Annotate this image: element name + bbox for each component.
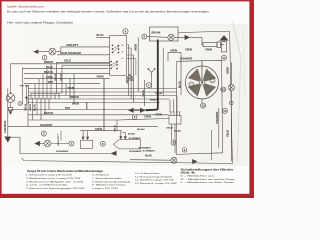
legend column 2 (92, 175, 132, 190)
wire chain c (190, 37, 203, 44)
label BLAU bottom (145, 155, 152, 158)
svg-text:BLAU: BLAU (174, 130, 182, 133)
svg-text:BRAUN: BRAUN (70, 96, 79, 99)
wire relay top bus (80, 130, 122, 132)
svg-text:SCHWARZ: SCHWARZ (139, 146, 152, 149)
label VIOLETT (66, 44, 79, 47)
frame bottom line (22, 158, 233, 163)
wire flywheel bottom stub (201, 99, 203, 103)
wire mid bus 2 (28, 91, 177, 93)
wire GELB v3 (130, 48, 132, 99)
svg-text:GELB: GELB (228, 130, 230, 137)
headlamp connector box (8, 108, 13, 111)
label BLAU switch5 (128, 133, 136, 136)
terminal block X8 (169, 111, 181, 124)
label GELB v3 (130, 74, 132, 81)
label SCHWARZ left (4, 120, 7, 133)
node label 9 top (142, 34, 147, 39)
headlamp H1 (Scheinwerfer) (6, 94, 15, 103)
wire green mid2 (118, 119, 169, 121)
terminal letter L (122, 58, 124, 60)
wire BLAU engine (180, 61, 182, 95)
blinker lamp 2 bottom (44, 140, 51, 147)
svg-text:GELB: GELB (60, 73, 62, 81)
svg-text:GRÜN: GRÜN (95, 128, 102, 131)
wire grun v7 (144, 80, 146, 106)
front blinker arrow (2) (33, 50, 38, 54)
svg-text:BLAU: BLAU (178, 81, 181, 88)
label GELB h (64, 60, 71, 63)
label GRUN relay (95, 128, 102, 131)
label tiny pins (20, 86, 29, 88)
wire pin v2 (32, 98, 34, 120)
label VIOLETT v (58, 132, 60, 146)
label SCHWARZ relay (56, 150, 69, 153)
label GELB right (228, 130, 230, 137)
wire WEIB v (137, 37, 139, 92)
wire extra drops (41, 74, 74, 120)
svg-text:11. Hochspannungszündspule: 11. Hochspannungszündspule (135, 176, 174, 178)
label GELB-SCHWARZ (60, 52, 82, 55)
svg-text:GELB: GELB (55, 73, 57, 81)
wire horn down (151, 76, 153, 89)
wire mid bus 8 (28, 119, 118, 121)
node label 2 top (42, 55, 47, 60)
svg-text:12. Rücklicht, Lampe 12V 5W: 12. Rücklicht, Lampe 12V 5W (135, 179, 174, 182)
label BRAUN mid3 (44, 112, 53, 115)
wire bottom bus left (20, 152, 111, 154)
svg-text:SCHWARZ: SCHWARZ (129, 137, 142, 140)
svg-text:0 – Blinklichter aus: 0 – Blinklichter aus (181, 175, 215, 178)
wire bus left group (11, 64, 110, 84)
svg-text:SCHWARZ: SCHWARZ (143, 150, 156, 153)
label WEIB v (136, 44, 138, 51)
brake switch pins (119, 131, 127, 140)
switch S4 contacts upper (112, 45, 119, 53)
svg-text:BLAU: BLAU (33, 104, 36, 111)
small connector 13 (230, 101, 234, 105)
arrow chain bottom (192, 159, 197, 164)
svg-text:1. Scheinwerfer Lampe 12V 15-1: 1. Scheinwerfer Lampe 12V 15-15W (26, 175, 72, 177)
wire inner right v (211, 130, 213, 160)
frame top line (178, 31, 230, 32)
svg-text:13. Bremslicht, Lampe 12V 10W: 13. Bremslicht, Lampe 12V 10W (135, 182, 177, 185)
node label 8 (171, 140, 176, 145)
wire headlamp up (10, 64, 11, 94)
node label 2 bottom (41, 131, 46, 136)
svg-text:SCHWARZ: SCHWARZ (216, 111, 219, 124)
tail lamp 12 (228, 84, 234, 90)
svg-text:Schaltstellungen der Blinker: Schaltstellungen der Blinker (181, 168, 234, 171)
front blinker arrow 2b (34, 141, 40, 146)
svg-text:BLAU: BLAU (138, 128, 146, 131)
label GRUN suppressor (205, 49, 212, 52)
wire plug lead (221, 44, 225, 46)
switch S4 contacts lower (110, 61, 117, 69)
label GRUN below box (97, 76, 104, 79)
svg-text:3. Elektronischer Blinkgeber 1: 3. Elektronischer Blinkgeber 12V - 2x21W (26, 180, 83, 183)
svg-text:GELB: GELB (114, 124, 116, 132)
wire pin v3 (36, 98, 38, 115)
label BLAU 5box (138, 128, 146, 131)
brake switch S5 body (114, 140, 141, 149)
label SCHWARZ bus (40, 124, 53, 127)
label SCHWARZ right (216, 111, 219, 124)
label GRUN ht2 (155, 113, 162, 116)
label GELB pin v (25, 104, 27, 111)
label BLAU engine (178, 81, 181, 88)
label ROT mid (65, 107, 71, 110)
svg-text:BRAUN: BRAUN (152, 32, 161, 35)
wire blinker2b (40, 143, 44, 145)
label GRUN engine1 (170, 50, 177, 53)
double arrow 6 (128, 108, 146, 113)
label GRUN v6 (85, 102, 88, 110)
flywheel magneto G1 (186, 61, 219, 99)
wire right chain bottom (230, 105, 232, 161)
svg-text:GRÜN: GRÜN (155, 92, 163, 95)
label GELB v1 (55, 73, 57, 81)
svg-text:10: 10 (201, 104, 205, 108)
wire mid bus 6 (8, 109, 150, 111)
label SCHWARZ pair a (139, 146, 152, 149)
wire GELB h (57, 61, 110, 63)
wire drop b (25, 85, 27, 105)
engine box (176, 60, 222, 154)
wire headlamp down (10, 102, 12, 107)
header caption line (7, 20, 74, 24)
label GRUN ht (144, 116, 151, 119)
svg-text:GELB: GELB (166, 128, 174, 130)
svg-text:WEIB: WEIB (72, 103, 79, 106)
wire ROT v (133, 55, 135, 103)
terminal letter G (122, 51, 124, 53)
svg-text:GRÜN: GRÜN (185, 49, 192, 52)
label GELB v2 (60, 73, 62, 81)
connector pin row X1 (30, 94, 60, 99)
wire BLAU into switch (96, 36, 110, 38)
HT lead vertical (157, 40, 159, 110)
label GELB v6 (114, 124, 116, 132)
svg-text:SCHWARZ: SCHWARZ (40, 124, 53, 127)
node label 12 (221, 87, 226, 92)
svg-text:10. Lichtmaschine: 10. Lichtmaschine (135, 172, 161, 175)
node label 11 (222, 55, 227, 60)
wire green mid1 (135, 114, 169, 116)
wire pin v1 (27, 98, 29, 127)
node label 4 (123, 29, 128, 34)
legend blinker states (181, 175, 235, 184)
wire SCHWARZ bus (8, 126, 158, 128)
svg-text:VIOLETT: VIOLETT (66, 44, 79, 47)
node label 9 bottom (182, 148, 187, 153)
ground main left (4, 137, 11, 143)
svg-text:L – Blinklichter an linke Seit: L – Blinklichter an linke Seite (181, 181, 234, 184)
wire bottom blau (130, 159, 171, 162)
svg-text:GRÜN: GRÜN (29, 103, 32, 111)
legend title (27, 169, 104, 173)
svg-text:BRAUN: BRAUN (44, 61, 53, 64)
svg-text:VIOLETT: VIOLETT (58, 132, 60, 146)
chain box top (150, 27, 179, 41)
ground mark drop b (25, 97, 28, 100)
wire GELB vertical 1 (56, 62, 58, 93)
legend column 3 (135, 172, 177, 185)
header description line (7, 10, 210, 14)
svg-text:GELB: GELB (25, 104, 27, 111)
wire thin beside HT (162, 48, 164, 96)
spark plug arrow (219, 35, 228, 42)
legend blinker title (181, 168, 234, 174)
svg-text:Vespa 50 mit 4-fach Wechselstr: Vespa 50 mit 4-fach Wechselstrom/Blinkli… (27, 169, 104, 173)
svg-text:12: 12 (222, 88, 226, 92)
label BLAU pin v (33, 104, 36, 111)
svg-text:R – Blinklichter an rechte Sei: R – Blinklichter an rechte Seite (181, 178, 235, 181)
suppressor body (203, 42, 221, 48)
wire blinker2a (38, 51, 49, 53)
flasher relay K3 box (81, 140, 93, 148)
svg-text:ROT: ROT (132, 75, 134, 81)
label SCHWARZ switch5 (129, 137, 142, 140)
svg-text:7. Bremslichtschalter: 7. Bremslichtschalter (92, 177, 123, 180)
wire mid bus 5 (28, 102, 160, 104)
svg-text:Quelle: Stocksmedia.com: Quelle: Stocksmedia.com (7, 4, 45, 8)
svg-text:Hier noch das original Piaggio: Hier noch das original Piaggio Schaltpla… (7, 20, 74, 24)
svg-text:BLAU: BLAU (46, 66, 53, 69)
label SCHWARZ switch5b (129, 150, 142, 153)
label GRUN v (126, 76, 129, 83)
label ROT v (132, 75, 134, 81)
label GRUN block (155, 92, 163, 95)
node label 1 (18, 101, 22, 105)
label GRUN pin v (29, 103, 32, 111)
wire GRUN below (104, 78, 110, 130)
svg-text:GELB: GELB (64, 60, 71, 63)
frame right line (230, 31, 233, 163)
svg-text:PH: PH (20, 86, 24, 88)
terminal letter R (122, 45, 124, 47)
svg-text:8. Niederspannungszündspule: 8. Niederspannungszündspule (92, 181, 132, 183)
wire VIOLETT (56, 47, 110, 52)
rear blinker lamp bottom (171, 157, 177, 163)
wire blinker2b right (51, 143, 69, 145)
svg-text:BRAUN: BRAUN (44, 112, 53, 115)
svg-text:13: 13 (223, 109, 227, 113)
wire chain b (174, 36, 185, 38)
legend column 1 (26, 175, 85, 190)
wire ground elbow (11, 137, 20, 153)
svg-text:WEIB: WEIB (136, 44, 138, 51)
label BLAU block (174, 130, 182, 133)
horn symbol 7 (148, 68, 156, 75)
wire mid bus 3 (28, 95, 177, 97)
svg-text:BLAU: BLAU (128, 133, 136, 136)
wire block down1 (171, 124, 173, 140)
node label 5 (100, 141, 105, 146)
label BRAUN top (152, 32, 161, 35)
header source line (7, 4, 45, 8)
wire GRUN v (128, 45, 130, 96)
svg-text:6. Zündkerze: 6. Zündkerze (92, 175, 111, 177)
svg-text:SCHWARZ: SCHWARZ (129, 150, 142, 153)
label BRAUN bus3 (44, 71, 53, 74)
wire drop c (27, 85, 29, 105)
svg-text:11: 11 (222, 56, 226, 60)
svg-text:GRÜN: GRÜN (205, 49, 212, 52)
wire mid bus 7 (28, 114, 135, 116)
wire violet v (60, 131, 62, 141)
label GELB block (166, 128, 174, 130)
blinker lamp 2 top (49, 48, 56, 55)
label ROT bus5 (48, 81, 54, 84)
node label 7 (146, 83, 151, 88)
arrow chain top (185, 35, 191, 40)
svg-text:GRÜN: GRÜN (85, 102, 88, 110)
svg-text:BLAU: BLAU (97, 34, 104, 37)
svg-text:SCHWARZ: SCHWARZ (56, 150, 69, 153)
label SCHWARZ pair b (143, 150, 156, 153)
wire box feed 4 (62, 65, 110, 67)
label SCHWARZ engine (180, 58, 193, 61)
wire gelb v6 (116, 120, 118, 131)
label BRAUN bus1 (44, 61, 53, 64)
wire mid bus 4 (28, 98, 170, 100)
ground headlamp (9, 111, 13, 115)
svg-text:SCHWARZ: SCHWARZ (4, 120, 7, 133)
svg-text:WEIB: WEIB (228, 67, 230, 74)
node label 3 (69, 141, 74, 146)
rear blinker lamp top (168, 34, 174, 40)
wire block feeds (170, 96, 177, 112)
label BLAU bus2 (46, 66, 53, 69)
svg-text:BLAU: BLAU (145, 155, 152, 158)
svg-text:(Abb. 4):: (Abb. 4): (181, 172, 196, 175)
wire switch right links (127, 45, 136, 76)
arrow on bottom bus (111, 151, 117, 156)
HT lead horizontal (146, 109, 158, 112)
svg-text:BRAUN: BRAUN (44, 71, 53, 74)
svg-text:Lampen 12V 21W: Lampen 12V 21W (92, 188, 118, 190)
svg-text:GRÜN: GRÜN (144, 116, 151, 119)
spark plug body (221, 42, 226, 52)
svg-text:Es war noch ein Rahmen enthalt: Es war noch ein Rahmen enthalten der ver… (7, 10, 210, 14)
label GRUN v7 (142, 89, 145, 97)
wire GELB-SCHWARZ (57, 54, 110, 56)
light-blinker switch S4 box (110, 35, 127, 75)
wire right chain mid (230, 91, 232, 102)
node label 6 (132, 115, 137, 120)
wire chain a (147, 36, 168, 39)
svg-text:9. Blinkleuchten hinten,: 9. Blinkleuchten hinten, (92, 184, 127, 187)
label WEIB right (228, 67, 230, 74)
wire grun engine top (168, 52, 181, 61)
svg-text:2. Blinkleuchten vorne, Lampen: 2. Blinkleuchten vorne, Lampen 12V 21W (26, 177, 81, 180)
wire SCHWARZ left edge (7, 89, 9, 137)
svg-text:GELB-SCHWARZ: GELB-SCHWARZ (60, 52, 82, 55)
svg-text:4. Licht- und Blinkerschalter: 4. Licht- und Blinkerschalter (26, 184, 68, 187)
wire GELB vertical 2 (61, 66, 63, 94)
wire right chain top (230, 63, 232, 85)
label GRUN engine2 (185, 49, 192, 52)
wire mid bus 1 (28, 88, 177, 90)
svg-text:5. Elektronischer Spannungsreg: 5. Elektronischer Spannungsregler 12V 50… (26, 187, 85, 190)
wire bus drop stubs (35, 64, 51, 94)
wire schwarz right v (218, 108, 220, 148)
label WEIB bus6 (68, 87, 75, 90)
wire block down2 (174, 124, 176, 153)
svg-text:BRAUN: BRAUN (150, 98, 160, 101)
label BRAUN mid (70, 96, 79, 99)
node label 13 (222, 108, 227, 113)
wire drop a (22, 68, 24, 105)
label WEIB mid2 (72, 103, 79, 106)
svg-text:GRÜN: GRÜN (142, 89, 145, 97)
svg-text:GRÜN: GRÜN (97, 76, 104, 79)
label BLAU switch (97, 34, 104, 37)
flasher pin arrows (82, 131, 90, 141)
node label 10 (201, 103, 206, 108)
label BRAUN block (150, 98, 160, 101)
label GRAU bus4 (46, 76, 53, 79)
svg-text:SCHWARZ: SCHWARZ (180, 58, 193, 61)
